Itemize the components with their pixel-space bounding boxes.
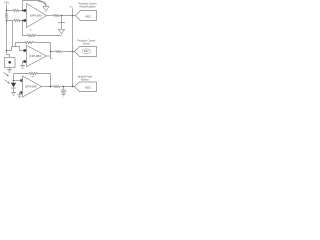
node label VOUT (69, 6, 74, 8)
down-arrow connector from filter node (61, 16, 63, 30)
resistor R2 (13, 9, 19, 11)
wire node B to R3 (7, 20, 15, 22)
junction U1 inverting node (22, 10, 24, 12)
stub hook (51, 58, 53, 60)
svg-text:Optical Power: Optical Power (78, 75, 93, 78)
capacitor C1 (63, 87, 65, 90)
wire R3 to U1 non-inverting input (20, 20, 23, 22)
wire U1 output (47, 15, 54, 17)
wire R7 to DAC (62, 51, 74, 53)
ADC U2 block (76, 11, 97, 21)
wire F1 horizontal (23, 35, 62, 37)
junction photodiode node (13, 80, 15, 82)
wire R4 to ADC1 (60, 15, 76, 17)
resistor R3 (14, 19, 20, 21)
DAC U4 block (75, 47, 97, 57)
op-amp U5 OPA380 (23, 76, 42, 97)
junction U3 output node (50, 51, 52, 53)
wire feedback down to output (50, 74, 52, 87)
ground photodiode (11, 93, 16, 96)
wire U1 non-inverting node down (22, 21, 24, 36)
node C junction (6, 50, 8, 52)
wire R2 to U1 inverting input (19, 10, 23, 12)
svg-text:VB1: VB1 (69, 6, 74, 8)
wire photodiode to U5 inverting input (14, 80, 21, 82)
U1 feedback wire top horizontal (23, 0, 41, 2)
svg-text:Source: Source (83, 42, 91, 45)
svg-text:RF: RF (32, 76, 35, 78)
resistor R6 on F2 (25, 41, 34, 43)
junction filter node (61, 15, 63, 17)
U5 input pin square (non-inverting) (20, 91, 23, 94)
U3 input pin square (non-inverting) (24, 60, 27, 63)
junction feedback/output (50, 86, 52, 88)
photodiode D1 (11, 83, 16, 88)
ADC U6 block (75, 82, 97, 92)
light arrow 2 (5, 80, 9, 83)
resistor R5 on F1 (27, 34, 36, 36)
wire U3 non-inverting to ground (23, 62, 24, 66)
ground LED (7, 70, 12, 73)
svg-text:Precision Current: Precision Current (77, 39, 95, 42)
svg-text:+5V: +5V (4, 0, 9, 4)
wire U5 non-inverting to ground (19, 93, 22, 95)
wire +5V rail vertical (6, 4, 8, 54)
wire R9 to ADC2 (60, 86, 74, 88)
label RF (32, 76, 35, 78)
node B junction (6, 20, 8, 22)
ground U3 (20, 66, 25, 69)
U1 input pin square (inverting) (24, 9, 27, 12)
resistor R4 (53, 14, 59, 16)
wire F2 horizontal (16, 42, 51, 44)
ground U5 (17, 95, 22, 98)
junction U1 non-inverting node (22, 20, 24, 22)
wire U5 feedback top (14, 73, 51, 75)
wire F2 left drop (15, 43, 17, 47)
wire LED box to ground (9, 67, 11, 69)
wire U3 output to R7 (51, 51, 56, 53)
LED module box (5, 58, 16, 68)
svg-text:OPA380: OPA380 (29, 54, 41, 58)
wire rail jog to LED box (7, 55, 10, 58)
text Precision Current Source (77, 39, 95, 45)
svg-text:DAC: DAC (84, 50, 89, 53)
resistor R8 feedback (29, 72, 38, 74)
feedback arrow into op-amp U1 (38, 1, 46, 6)
light arrow 1 (4, 72, 8, 75)
LED dot (8, 61, 11, 64)
op-amp U3 OPA380 (27, 46, 47, 67)
resistor R7 (55, 50, 61, 52)
U1 feedback wire vertical (22, 1, 24, 11)
svg-text:ADC: ADC (85, 86, 91, 90)
ground capacitor (61, 93, 66, 96)
node A junction (6, 10, 8, 12)
svg-text:Monitor: Monitor (81, 78, 89, 81)
resistor R9 (53, 85, 59, 87)
svg-text:5V: 5V (30, 30, 33, 32)
resistor R1 (vertical current sense) (5, 12, 7, 18)
wire U3 feedback vertical (50, 43, 52, 59)
text Precision Current Result/Analysis (79, 3, 97, 9)
U3 input pin square (inverting) (24, 49, 27, 52)
junction cap node (63, 86, 65, 88)
junction bus bottom (72, 86, 74, 88)
svg-text:Precision Current: Precision Current (79, 3, 97, 6)
wire photodiode anode (13, 74, 15, 83)
junction bus mid (72, 51, 74, 53)
svg-text:ADC: ADC (85, 14, 91, 18)
wire U3 output stub (47, 55, 51, 57)
wire label stub (72, 8, 74, 15)
wire U5 output (42, 86, 54, 88)
bus wire vertical (72, 16, 74, 87)
U1 supply label 5V (30, 30, 33, 32)
svg-text:OPA380: OPA380 (30, 13, 42, 17)
op-amp U1 OPA380 (27, 4, 47, 28)
wire vertical from node B line (12, 21, 14, 47)
wire node A to R2 (7, 10, 13, 12)
svg-text:OPA380: OPA380 (25, 84, 37, 88)
svg-text:Result/Analysis: Result/Analysis (80, 6, 97, 9)
U5 input pin square (inverting) (20, 79, 23, 82)
wire staircase to node C (7, 47, 20, 51)
U1 input pin square (non-inverting) (24, 19, 27, 22)
+5V supply label (4, 0, 9, 4)
text Optical Power Monitor (78, 75, 93, 81)
junction bus top (72, 15, 74, 17)
wire staircase right to U3 inverting input (20, 47, 24, 51)
